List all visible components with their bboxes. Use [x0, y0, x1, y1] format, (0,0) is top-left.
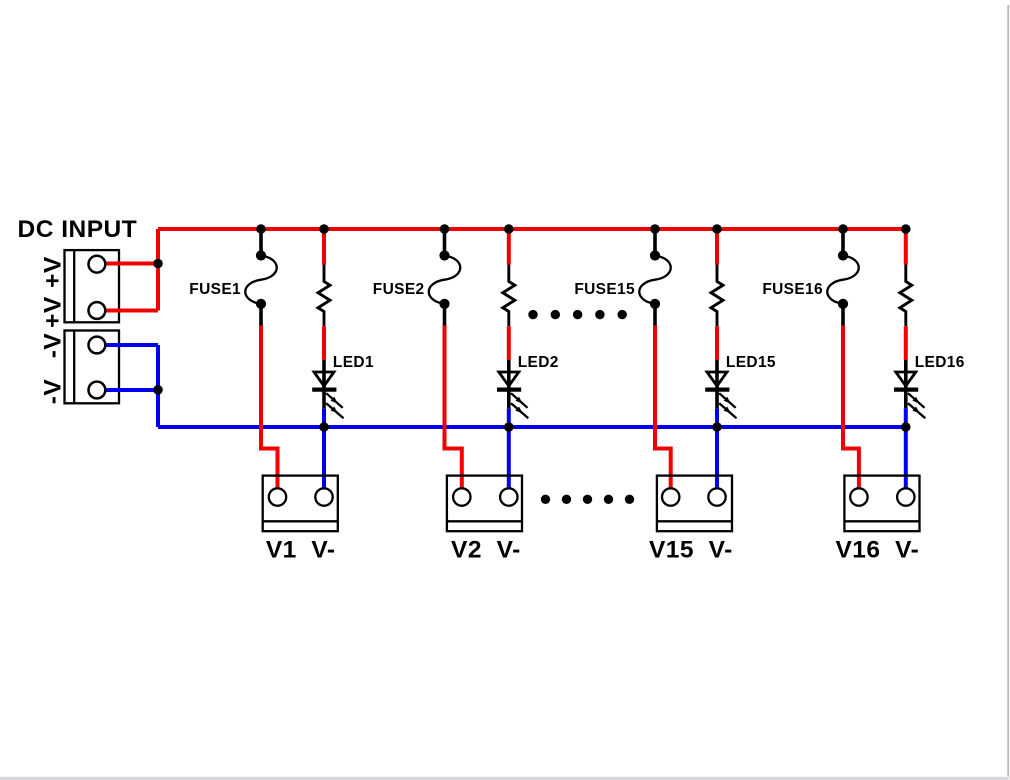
fuse F2 branch wire (red)	[445, 326, 462, 490]
svg-text:LED15: LED15	[726, 354, 776, 371]
svg-text:FUSE2: FUSE2	[373, 281, 425, 298]
page bottom border	[0, 777, 1010, 780]
svg-text:FUSE16: FUSE16	[762, 281, 823, 298]
fuse F16 top lead	[841, 229, 845, 256]
output terminal block V16	[844, 476, 919, 532]
wire resistor to LED15 (red)	[715, 326, 719, 360]
wire V- bus feed (blue)	[105, 345, 158, 427]
LED16	[894, 360, 925, 418]
fuse F1 body	[245, 256, 277, 304]
page right border	[1007, 5, 1009, 780]
fuse F2 top lead	[443, 229, 447, 256]
output terminal block V1	[263, 476, 338, 532]
resistor R15 top lead (red)	[715, 229, 719, 265]
junction red bus / resistor R1	[319, 224, 329, 234]
svg-text:+V: +V	[40, 296, 67, 328]
LED15 cathode wire (blue)	[715, 408, 719, 427]
fuse F15 bottom lead	[653, 304, 657, 326]
junction red bus / fuse F15	[650, 224, 660, 234]
junction blue bus / LED2	[504, 422, 514, 432]
junction blue bus / LED1	[319, 422, 329, 432]
junction blue bus / LED16	[901, 422, 911, 432]
junction red bus / resistor R15	[712, 224, 722, 234]
fuse F1 branch wire (red)	[261, 326, 278, 490]
svg-text:V15 V-: V15 V-	[649, 537, 733, 564]
junction red bus / resistor R16	[901, 224, 911, 234]
J1 pin circles	[89, 256, 106, 319]
junction red bus / resistor R2	[504, 224, 514, 234]
wire resistor to LED16 (red)	[904, 326, 908, 360]
wire resistor to LED2 (red)	[507, 326, 511, 360]
LED16 cathode wire (blue)	[904, 408, 908, 427]
wire blue bus to output (blue)	[715, 427, 719, 489]
terminal block J1 (V+ V+)	[65, 250, 120, 322]
resistor R16 top lead (red)	[904, 229, 908, 265]
output terminal block V2	[447, 476, 522, 532]
svg-text:V16 V-: V16 V-	[835, 537, 919, 564]
wire blue bus to output (blue)	[904, 427, 908, 489]
resistor R15	[711, 265, 723, 327]
junction blue bus / LED15	[712, 422, 722, 432]
J2 pin circles	[89, 337, 106, 399]
junction red bus / fuse F1	[256, 224, 266, 234]
fuse F2 bottom lead	[443, 304, 447, 326]
resistor R2 top lead (red)	[507, 229, 511, 265]
fuse F1 top lead	[259, 229, 263, 256]
junction red bus / fuse F2	[440, 224, 450, 234]
svg-text:-V: -V	[40, 333, 67, 359]
svg-text:V2 V-: V2 V-	[451, 537, 521, 564]
resistor R2	[503, 265, 515, 327]
svg-text:DC INPUT: DC INPUT	[18, 216, 138, 243]
terminal block J2 (V- V-)	[65, 331, 120, 404]
LED2	[497, 360, 528, 418]
fuse F15 branch wire (red)	[655, 326, 671, 490]
svg-text:LED2: LED2	[518, 354, 559, 371]
wire V+ bus feed (red)	[105, 229, 158, 311]
fuse F15 body	[639, 256, 671, 304]
svg-text:LED1: LED1	[333, 354, 374, 371]
resistor R16	[900, 265, 912, 327]
fuse F15 top lead	[653, 229, 657, 256]
ellipsis dots (upper row)	[528, 310, 627, 319]
LED2 cathode wire (blue)	[507, 408, 511, 427]
svg-text:V1 V-: V1 V-	[266, 537, 336, 564]
resistor R1 top lead (red)	[322, 229, 326, 265]
fuse F2 body	[429, 256, 461, 304]
fuse F16 bottom lead	[841, 304, 845, 326]
svg-text:FUSE1: FUSE1	[189, 281, 241, 298]
resistor R1	[318, 265, 330, 327]
fuse F1 bottom lead	[259, 304, 263, 326]
LED15	[705, 360, 736, 418]
wire blue bus to output (blue)	[507, 427, 511, 489]
fuse F16 body	[827, 256, 859, 304]
junction V+ feed	[153, 259, 163, 269]
wire blue bus to output (blue)	[322, 427, 326, 489]
svg-text:+V: +V	[40, 256, 67, 288]
junction red bus / fuse F16	[838, 224, 848, 234]
junction V- feed	[153, 385, 163, 395]
V- bus (blue)	[158, 425, 906, 429]
svg-text:FUSE15: FUSE15	[574, 281, 635, 298]
svg-text:-V: -V	[40, 379, 67, 405]
LED1	[312, 360, 343, 418]
svg-text:LED16: LED16	[915, 354, 965, 371]
wire resistor to LED1 (red)	[322, 326, 326, 360]
LED1 cathode wire (blue)	[322, 408, 326, 427]
ellipsis dots (lower row)	[541, 495, 634, 504]
V+ bus (red)	[158, 227, 906, 231]
fuse F16 branch wire (red)	[843, 326, 859, 490]
output terminal block V15	[657, 476, 732, 532]
